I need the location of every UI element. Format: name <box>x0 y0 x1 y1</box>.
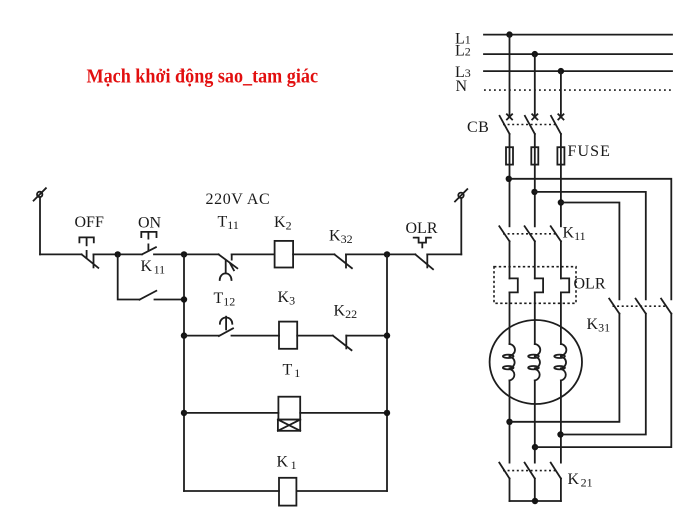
junction node motor B out <box>532 444 538 450</box>
K11 linkage (dotted) <box>503 233 558 235</box>
wire: phase B to OLR <box>534 241 536 278</box>
delta return wire to phase C <box>561 314 646 435</box>
pushbutton ON (NO) <box>138 214 162 254</box>
wire: phase A motor to K21 <box>509 381 511 463</box>
left supply terminal <box>34 188 46 254</box>
timed contact T12 (NO, on-delay) <box>214 290 236 336</box>
coil K3 <box>278 289 298 349</box>
pushbutton OFF (NC) <box>75 214 104 268</box>
OLR heater element C <box>561 278 569 292</box>
star point node <box>532 498 538 504</box>
svg-text:220V AC: 220V AC <box>206 191 271 208</box>
svg-text:N: N <box>456 78 468 95</box>
wire: K22 to right rail <box>346 335 387 337</box>
contactor K21 pole B <box>525 463 535 479</box>
contactor K11 pole C <box>551 226 561 241</box>
wire: K2 to K32 <box>293 253 334 255</box>
junction node fuse A out <box>506 176 512 182</box>
wire: row3 left segment <box>184 335 219 337</box>
svg-text:K31: K31 <box>587 316 611 335</box>
svg-text:T11: T11 <box>218 214 239 233</box>
wire: K11 aux to left rail <box>155 299 185 301</box>
contactor K31 pole 3 <box>661 299 671 314</box>
delta return wire to phase B <box>535 314 671 448</box>
contactor K31 pole 2 <box>636 299 646 314</box>
wire: T1 to right rail <box>300 412 387 414</box>
wire: K32 to OLR <box>346 253 415 255</box>
wire: K21 pole B to star bar <box>534 479 536 502</box>
wire: top rail from terminal to OFF <box>40 253 82 255</box>
svg-text:FUSE: FUSE <box>568 143 612 160</box>
wire: phase C drop to CB <box>560 71 562 115</box>
svg-text:OLR: OLR <box>406 220 438 237</box>
OLR heater element B <box>535 278 543 292</box>
line N (dotted) <box>484 89 672 91</box>
wire: phase B motor to K21 <box>534 381 536 463</box>
svg-text:K11: K11 <box>141 258 166 277</box>
right supply terminal <box>455 189 467 254</box>
delta feed wire from phase A <box>509 179 672 299</box>
svg-text:K21: K21 <box>568 471 593 490</box>
CB linkage (dotted) <box>503 124 557 126</box>
OLR heater element A <box>510 278 518 292</box>
wire: phase B OLR to motor <box>534 292 536 344</box>
wire: right rail <box>386 254 388 491</box>
junction node (right rail top) <box>384 251 390 257</box>
junction node (bypass to rail) <box>181 296 187 302</box>
wire: phase A through fuse to K11 <box>509 134 511 226</box>
contact K11 auxiliary (NO) <box>140 258 166 300</box>
star point bar <box>510 500 561 502</box>
svg-text:OLR: OLR <box>574 276 606 293</box>
wire: phase C OLR to motor <box>560 292 562 344</box>
svg-text:K1: K1 <box>277 454 297 473</box>
svg-text:T1: T1 <box>283 362 301 381</box>
overload relay contact OLR (NC) <box>406 220 438 269</box>
wire: phase A to OLR <box>509 241 511 278</box>
breaker CB pole A <box>500 114 512 134</box>
svg-text:CB: CB <box>467 119 489 136</box>
svg-text:Mạch khởi động sao_tam giác: Mạch khởi động sao_tam giác <box>87 66 319 88</box>
junction node motor A out <box>506 419 512 425</box>
svg-text:K11: K11 <box>563 225 586 244</box>
wire: K1 to right rail <box>296 490 387 492</box>
svg-text:K32: K32 <box>329 228 353 247</box>
wire: K21 pole C to star bar <box>560 479 562 502</box>
wire: K21 pole A to star bar <box>509 479 511 502</box>
OLR enclosure (dashed box) <box>494 267 576 304</box>
breaker CB pole C <box>551 114 564 134</box>
coil K2 <box>274 214 293 268</box>
breaker CB pole B <box>525 114 538 134</box>
svg-text:ON: ON <box>138 214 162 231</box>
wire: phase C to OLR <box>560 241 562 278</box>
wire: phase B through fuse to K11 <box>534 134 536 226</box>
wire: K3 to K22 <box>297 335 333 337</box>
junction node (row4 right) <box>384 410 390 416</box>
svg-text:T12: T12 <box>214 290 236 309</box>
timer T1 <box>278 362 300 431</box>
wire: phase B drop to CB <box>534 54 536 115</box>
wire: ON to T11 <box>154 253 219 255</box>
junction node (row3 right) <box>384 332 390 338</box>
fuse C <box>557 147 564 164</box>
coil K1 <box>277 454 297 506</box>
contactor K21 pole A <box>499 463 509 479</box>
line L2 <box>484 53 672 55</box>
wire: OLR to right terminal <box>427 253 461 255</box>
wire: row4 left segment <box>184 412 278 414</box>
junction node (row4 left) <box>181 410 187 416</box>
svg-text:L2: L2 <box>455 43 471 60</box>
motor winding B <box>528 344 540 381</box>
junction node fuse B out <box>531 189 537 195</box>
fuse A <box>506 147 513 164</box>
fuse B <box>531 147 538 164</box>
delta return wire to phase A <box>510 314 620 422</box>
contact K22 (NC) <box>333 303 357 351</box>
wire: left rail <box>183 254 185 491</box>
wire: T11 to K2 <box>232 253 275 255</box>
contactor K11 pole A <box>499 226 509 241</box>
svg-text:K22: K22 <box>334 303 358 322</box>
junction node (row3 left) <box>181 332 187 338</box>
junction node motor C out <box>557 431 563 437</box>
wire: phase A drop to CB <box>509 35 511 115</box>
line L1 <box>484 34 672 36</box>
wire: ON bypass branch <box>118 254 140 299</box>
motor body <box>490 320 582 404</box>
junction node L2 <box>532 51 538 57</box>
wire: OFF to ON <box>94 253 143 255</box>
wire: row5 left segment <box>184 490 279 492</box>
K21 linkage (dotted) <box>503 470 558 472</box>
svg-text:K2: K2 <box>274 214 292 233</box>
motor winding A <box>503 344 515 381</box>
line L3 <box>484 70 672 72</box>
delta feed wire from phase B <box>535 192 646 299</box>
wire: phase C motor to K21 <box>560 381 562 463</box>
contactor K31 pole 1 <box>609 299 619 314</box>
contact K32 (NC) <box>329 228 353 269</box>
junction node fuse C out <box>558 199 564 205</box>
svg-text:K3: K3 <box>278 289 296 308</box>
junction node (ON branch) <box>115 251 121 257</box>
wire: phase A OLR to motor <box>509 292 511 344</box>
motor winding C <box>554 344 566 381</box>
junction node L1 <box>506 31 512 37</box>
delta feed wire from phase C <box>561 203 620 300</box>
contactor K11 pole B <box>525 226 535 241</box>
junction node (left rail top) <box>181 251 187 257</box>
svg-text:OFF: OFF <box>75 214 104 231</box>
wire: phase C through fuse to K11 <box>560 134 562 226</box>
contactor K21 pole C <box>551 463 561 479</box>
wire: T12 to K3 <box>232 335 280 337</box>
K31 linkage (dotted) <box>613 305 668 307</box>
timed contact T11 (NC, off-delay) <box>218 214 239 281</box>
junction node L3 <box>558 68 564 74</box>
